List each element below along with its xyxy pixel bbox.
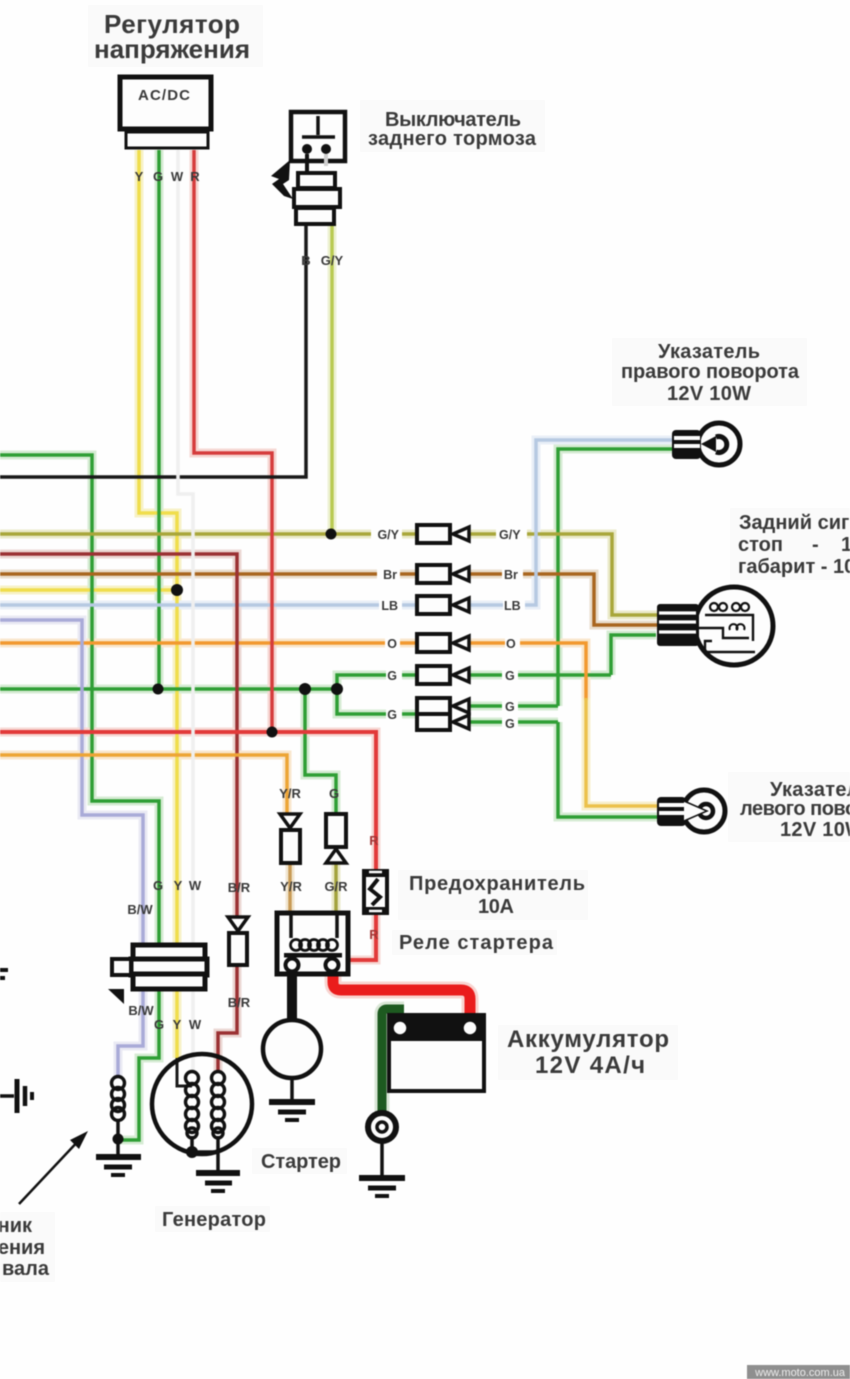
svg-text:R: R [369, 927, 379, 942]
wire Y yellow feed row from left edge [0, 588, 176, 592]
svg-text:W: W [189, 1017, 202, 1032]
wire R red main row to fuse [0, 732, 376, 869]
wire G row3 right to left turn signal [470, 722, 657, 817]
svg-text:12V 10W: 12V 10W [780, 819, 850, 841]
diode D3 B/R [228, 917, 248, 965]
svg-text:Генератор: Генератор [162, 1209, 266, 1231]
wire Br brown row right to rear lamp [470, 574, 657, 625]
connector block arrow [108, 989, 124, 1004]
svg-text:G: G [153, 169, 163, 184]
voltage regulator U1 box [120, 77, 211, 148]
svg-text:Y/R: Y/R [280, 879, 302, 894]
svg-text:12V 10W: 12V 10W [667, 383, 751, 405]
svg-text:O: O [387, 637, 397, 651]
svg-text:левого поворота: левого поворота [740, 798, 850, 820]
svg-text:AC/DC: AC/DC [138, 87, 190, 104]
svg-text:Y: Y [174, 878, 183, 893]
wire Y yellow from regulator [139, 150, 177, 1058]
junction dots [326, 529, 337, 540]
svg-text:O: O [506, 637, 516, 651]
svg-text:W: W [189, 878, 202, 893]
svg-text:Аккумулятор: Аккумулятор [507, 1026, 669, 1053]
svg-text:G: G [505, 669, 515, 683]
svg-text:G/Y: G/Y [499, 528, 521, 542]
background chroma bleed layer (decorative) [0, 150, 672, 1140]
wire G green drop to G/R diode [305, 689, 336, 814]
svg-text:B/R: B/R [228, 995, 251, 1010]
svg-text:LB: LB [381, 599, 398, 613]
wire O orange row left [0, 641, 416, 645]
svg-text:R: R [190, 169, 200, 184]
diode D1 Y/R [280, 814, 300, 863]
diode D2 G/R [326, 814, 346, 863]
pointer arrow to pickup coil [19, 1131, 88, 1204]
svg-text:1: 1 [841, 534, 850, 556]
svg-text:LB: LB [504, 599, 521, 613]
svg-text:B: B [301, 253, 310, 268]
svg-text:правого поворота: правого поворота [621, 361, 800, 383]
svg-text:Y: Y [173, 1017, 182, 1032]
svg-text:Указатель: Указатель [658, 341, 760, 363]
svg-text:G/Y: G/Y [377, 528, 399, 542]
cut-off symbol at left edge [0, 970, 8, 978]
wire LB light blue row right to right turn signal [470, 440, 672, 605]
ring terminal on green cable [368, 1113, 396, 1141]
svg-text:напряжения: напряжения [94, 34, 250, 64]
multi-pin connector block with wires [112, 945, 207, 989]
wire B black from brake switch [0, 224, 306, 477]
connector pair LB [417, 596, 469, 614]
wire black lead inside generator [177, 1058, 192, 1086]
wire G row2 left [337, 689, 416, 714]
ground under pickup coil [96, 1157, 141, 1175]
svg-text:www.moto.com.ua: www.moto.com.ua [754, 1367, 846, 1379]
svg-text:ник: ник [0, 1215, 33, 1237]
connector labels right column [499, 528, 521, 731]
svg-text:габарит - 10W: габарит - 10W [738, 556, 850, 578]
svg-text:G/R: G/R [324, 879, 348, 894]
starter M1 [263, 1020, 321, 1078]
wire LB light blue row left [0, 603, 416, 607]
svg-text:G: G [329, 786, 339, 801]
wire G/Y olive row right to rear lamp [470, 534, 657, 615]
battery BT1 [389, 1015, 484, 1091]
wire G/R olive from diode to relay [334, 863, 338, 914]
wire G row1 right to rear lamp [470, 635, 656, 675]
wire Y/R tan from diode to relay [288, 863, 292, 914]
svg-text:G: G [387, 669, 397, 683]
svg-text:стоп: стоп [738, 534, 783, 556]
connector double G [417, 698, 469, 730]
right turn signal lamp [672, 423, 740, 465]
connector pair O [417, 634, 469, 652]
svg-text:12V 4А/ч: 12V 4А/ч [535, 1052, 645, 1079]
brake switch pointer arrow [271, 160, 293, 199]
regulator pin labels Y G W R [135, 169, 201, 184]
starter relay K1 [277, 913, 348, 974]
svg-text:Y/R: Y/R [279, 786, 301, 801]
svg-text:Реле стартера: Реле стартера [399, 932, 554, 954]
connector pair Br [417, 565, 469, 583]
svg-text:G: G [387, 708, 397, 722]
svg-text:G: G [505, 700, 515, 714]
svg-text:-: - [812, 534, 819, 556]
battery cable thick green [382, 1009, 404, 1113]
wire G green bus row [0, 687, 337, 691]
svg-text:Предохранитель: Предохранитель [409, 873, 585, 895]
wire R red from fuse to relay [348, 914, 376, 960]
connector labels left column [377, 528, 399, 722]
ground under starter [269, 1078, 315, 1120]
svg-text:Br: Br [504, 568, 518, 582]
svg-text:заднего тормоза: заднего тормоза [368, 128, 537, 150]
svg-text:B/W: B/W [128, 1003, 154, 1018]
svg-text:G: G [154, 1017, 164, 1032]
svg-text:Br: Br [383, 568, 397, 582]
wire R red from regulator [194, 150, 272, 731]
svg-text:вала: вала [2, 1258, 50, 1280]
wire O orange row right [470, 643, 586, 700]
wire G row1 left [337, 675, 416, 690]
watermark [747, 1365, 850, 1379]
left edge sideways ground [0, 1079, 32, 1113]
fuse F1 10A [362, 869, 389, 915]
ground under generator [196, 1173, 240, 1191]
connector pair G single [417, 666, 469, 684]
wire G row2 right to right turn signal [470, 449, 672, 706]
svg-text:B/W: B/W [127, 902, 153, 917]
generator G1 [152, 1054, 252, 1172]
pickup coil (crank position sensor) [112, 1077, 125, 1121]
svg-text:G/Y: G/Y [321, 253, 344, 268]
wire B/R maroon below diode to generator [218, 966, 237, 1073]
wire Br brown row left [0, 572, 416, 576]
svg-text:ения: ения [0, 1237, 45, 1259]
svg-text:10А: 10А [478, 896, 514, 918]
svg-text:Стартер: Стартер [261, 1151, 341, 1173]
rear stop lamp [657, 587, 773, 665]
wire B/R maroon row from left edge [0, 554, 237, 916]
left turn signal lamp [657, 790, 725, 832]
wire O yellow drop to left turn signal [586, 698, 657, 806]
connector pair G/Y [417, 525, 469, 543]
battery cable thick red [333, 967, 470, 1021]
svg-text:G: G [153, 878, 163, 893]
wire W white from regulator to generator [178, 150, 193, 1071]
wire thick black relay to starter [287, 970, 297, 1022]
svg-text:Y: Y [135, 169, 144, 184]
wire G/Y from brake switch [330, 224, 334, 533]
svg-text:W: W [171, 169, 184, 184]
wire Y/R orange row from left edge to diode [0, 755, 287, 814]
wire G green from regulator [157, 150, 161, 688]
ground under ring terminal [359, 1141, 405, 1196]
wire B/W lavender from left edge to pickup coil [0, 620, 143, 1078]
wire G green from left edge to generator [0, 455, 159, 1140]
svg-text:R: R [369, 833, 379, 848]
svg-text:Задний сигнал: Задний сигнал [739, 512, 850, 534]
rear brake switch S1 [291, 112, 345, 224]
svg-text:G: G [505, 717, 515, 731]
wire G/Y olive row left [0, 532, 416, 536]
svg-text:B/R: B/R [228, 880, 251, 895]
